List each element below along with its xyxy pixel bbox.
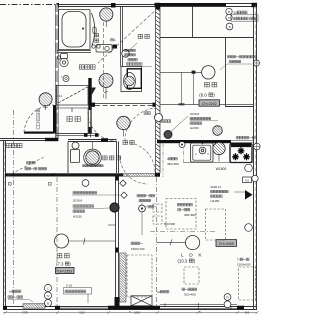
svg-text:W1800: W1800	[216, 167, 227, 171]
svg-text:H2150: H2150	[73, 215, 82, 219]
svg-text:1500×700: 1500×700	[131, 247, 145, 251]
svg-text:(7.3: (7.3	[56, 261, 64, 266]
svg-text:B: B	[228, 10, 230, 14]
svg-text:711: 711	[57, 94, 62, 98]
svg-text:2019.8: 2019.8	[73, 199, 83, 203]
svg-text:TV: TV	[228, 16, 232, 20]
svg-text:910: 910	[245, 311, 250, 315]
svg-text:X 10: X 10	[66, 284, 73, 288]
svg-text:1820: 1820	[134, 311, 140, 315]
svg-text:CH=2365: CH=2365	[219, 242, 234, 246]
svg-text:B: B	[47, 301, 49, 305]
svg-text:B: B	[229, 25, 231, 29]
svg-text:302×400: 302×400	[184, 292, 196, 296]
svg-text:500×500: 500×500	[164, 222, 176, 226]
svg-text:TV: TV	[226, 295, 230, 299]
svg-text:(10.3: (10.3	[178, 259, 188, 264]
svg-text:A: A	[114, 38, 116, 42]
svg-text:2723: 2723	[22, 311, 28, 315]
svg-text:CH=2353: CH=2353	[58, 269, 73, 273]
svg-text:C: C	[47, 286, 49, 290]
svg-text:1200×500: 1200×500	[237, 263, 251, 267]
svg-text:2019.8: 2019.8	[190, 112, 200, 116]
svg-text:450×650: 450×650	[167, 162, 179, 166]
svg-text:(6.0: (6.0	[199, 93, 207, 98]
svg-text:2110: 2110	[79, 311, 85, 315]
svg-text:800×800: 800×800	[184, 213, 196, 217]
svg-text:TV: TV	[46, 294, 50, 298]
svg-text:H2150: H2150	[211, 199, 220, 203]
svg-text:CH=2202: CH=2202	[202, 102, 217, 106]
svg-text:AC: AC	[234, 11, 239, 15]
svg-text:2020.11: 2020.11	[211, 185, 222, 189]
svg-text:H2150: H2150	[190, 126, 199, 130]
svg-text:K3: K3	[245, 178, 249, 182]
